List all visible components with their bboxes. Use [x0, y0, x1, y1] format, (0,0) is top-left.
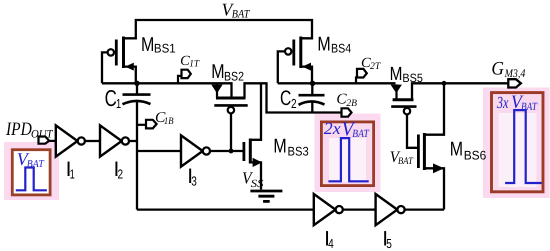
label C1	[105, 85, 122, 111]
svg-text:2: 2	[118, 166, 124, 181]
label C2T	[361, 56, 382, 72]
svg-text:2x: 2x	[324, 119, 341, 138]
waveform box 3xVBAT halo	[483, 88, 550, 199]
wire VBAT top rail	[124, 20, 313, 38]
label MBS1	[141, 34, 176, 56]
svg-text:BAT: BAT	[352, 128, 369, 140]
label VBAT gate net	[390, 149, 414, 167]
label IPDOUT	[5, 119, 54, 141]
wire I3 in	[137, 150, 181, 152]
transistor MBS6	[418, 83, 444, 209]
svg-text:BS6: BS6	[464, 148, 487, 162]
label MBS4	[317, 34, 351, 56]
pin flag C1B	[138, 120, 157, 129]
label I4	[324, 227, 334, 251]
capacitor C2	[299, 83, 325, 105]
wire node C1T	[102, 83, 232, 98]
svg-text:2T: 2T	[370, 61, 382, 72]
label I2	[114, 158, 124, 182]
svg-text:M: M	[390, 64, 403, 85]
label C1T	[180, 54, 200, 70]
svg-text:3x: 3x	[496, 93, 509, 112]
pin flag IPDOUT input	[39, 137, 56, 144]
svg-text:BS3: BS3	[288, 144, 309, 158]
waveform box VBAT halo	[4, 142, 59, 200]
wire I1 to I2	[85, 140, 100, 142]
wire node C2B	[245, 83, 342, 112]
waveform box VBAT	[12, 149, 50, 195]
wire I3 out to MBS3 gate	[210, 150, 244, 152]
pin flag C1T	[178, 70, 191, 84]
wire node C2T	[278, 82, 396, 84]
label C2	[280, 87, 297, 111]
label MBS6	[450, 139, 487, 163]
wire output GM34	[412, 83, 508, 100]
waveform box 3xVBAT	[492, 92, 544, 192]
svg-text:1: 1	[116, 96, 121, 111]
pin flag C2T	[356, 69, 367, 84]
waveform box 2xVBAT halo	[315, 114, 381, 193]
svg-text:C: C	[280, 87, 291, 110]
svg-text:1B: 1B	[164, 116, 174, 127]
svg-text:SS: SS	[251, 178, 264, 190]
inverter I2	[100, 125, 129, 156]
label VSS	[242, 169, 264, 191]
inverter I4	[314, 194, 343, 225]
inverter I5	[376, 194, 405, 225]
svg-text:4: 4	[328, 236, 334, 251]
label I5	[382, 227, 392, 251]
label I3	[187, 165, 197, 189]
svg-text:BS2: BS2	[224, 70, 244, 84]
pin flag C2B	[342, 108, 352, 116]
svg-text:BS4: BS4	[331, 41, 351, 55]
svg-text:M: M	[317, 34, 330, 56]
wire C2 bottom tap	[311, 102, 313, 113]
waveform box 2xVBAT	[321, 119, 373, 186]
svg-text:BAT: BAT	[232, 8, 251, 20]
label I1	[66, 158, 75, 182]
svg-text:BS1: BS1	[154, 42, 176, 56]
wire I4 to I5	[343, 208, 376, 210]
node C2 top junction	[310, 81, 315, 86]
svg-text:3: 3	[191, 174, 197, 189]
svg-text:1: 1	[70, 166, 75, 181]
label C2B	[336, 91, 357, 109]
transistor MBS4	[278, 37, 312, 84]
svg-text:IPD: IPD	[5, 119, 32, 140]
label C1B	[155, 110, 174, 127]
svg-text:M: M	[273, 135, 286, 157]
ground	[250, 191, 282, 201]
svg-text:BAT: BAT	[398, 156, 414, 167]
svg-text:M: M	[211, 61, 224, 83]
label VBAT top	[222, 0, 251, 20]
node C1 top junction	[134, 81, 139, 86]
wire I2 out	[129, 140, 137, 142]
label GM34	[491, 59, 525, 80]
inverter I1	[56, 125, 85, 156]
transistor MBS1	[102, 37, 136, 84]
transistor MBS3	[244, 83, 262, 189]
svg-text:2B: 2B	[346, 98, 357, 109]
pin flag GM34	[508, 79, 521, 87]
svg-text:M: M	[141, 34, 154, 56]
svg-text:M3,4: M3,4	[504, 68, 526, 80]
svg-text:2: 2	[291, 96, 297, 111]
svg-text:M: M	[450, 139, 463, 161]
svg-text:C: C	[105, 85, 117, 111]
capacitor C1	[123, 83, 151, 209]
svg-text:5: 5	[386, 236, 392, 251]
svg-text:G: G	[491, 59, 504, 80]
transistor MBS5	[391, 84, 419, 147]
svg-text:OUT: OUT	[31, 129, 54, 141]
wire bottom rail	[137, 208, 314, 210]
label MBS5	[390, 64, 424, 85]
transistor MBS2	[211, 84, 247, 151]
wire I5 to MBS6 source	[405, 208, 444, 210]
node I3 out junction	[229, 149, 234, 154]
label MBS3	[273, 135, 308, 158]
node MBS6 drain junction	[442, 81, 447, 86]
label MBS2	[211, 61, 244, 84]
svg-text:1T: 1T	[189, 59, 200, 70]
inverter I3	[181, 135, 210, 166]
